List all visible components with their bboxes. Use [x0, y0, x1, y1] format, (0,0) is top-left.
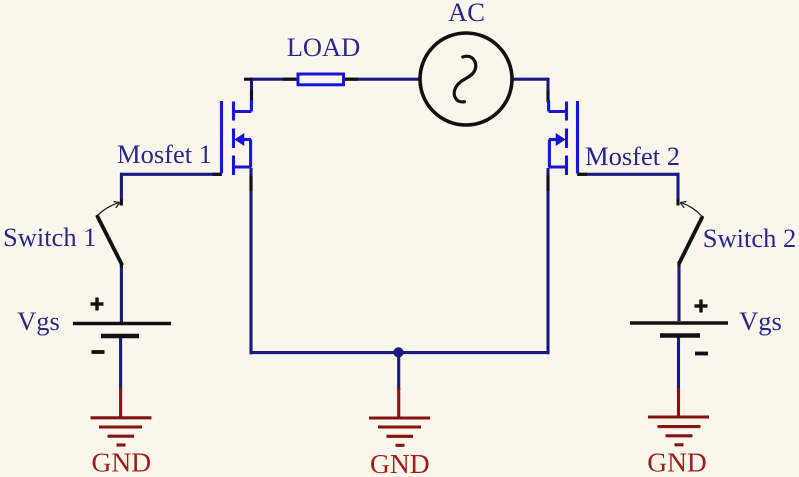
svg-text:Switch 2: Switch 2	[703, 223, 797, 253]
svg-text:Vgs: Vgs	[17, 306, 60, 336]
svg-text:GND: GND	[370, 448, 430, 477]
svg-text:AC: AC	[448, 0, 485, 27]
svg-text:Mosfet 1: Mosfet 1	[117, 139, 212, 169]
svg-text:Vgs: Vgs	[739, 306, 782, 336]
svg-text:GND: GND	[92, 447, 152, 477]
svg-text:Mosfet 2: Mosfet 2	[585, 141, 680, 171]
svg-text:Switch 1: Switch 1	[3, 222, 97, 252]
svg-text:GND: GND	[647, 447, 707, 477]
svg-text:LOAD: LOAD	[287, 32, 361, 62]
